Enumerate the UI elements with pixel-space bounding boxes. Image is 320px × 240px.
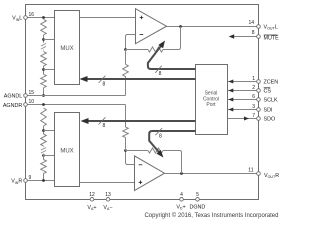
pin 1 ZCEN	[257, 80, 261, 84]
pin 14 VoutL	[257, 25, 261, 29]
svg-text:16: 16	[29, 12, 35, 18]
MUX U1 left channel	[55, 11, 80, 85]
op-amp A2 right channel	[135, 156, 165, 191]
ladder-L continuation squiggle	[41, 42, 46, 51]
variable resistor RF2 (feedback)	[148, 148, 163, 153]
svg-text:MUX: MUX	[60, 148, 73, 154]
arrowhead MUTE	[229, 34, 235, 38]
resistor ladder-L R1	[41, 19, 47, 35]
svg-text:4: 4	[180, 192, 183, 198]
svg-text:14: 14	[248, 20, 254, 26]
arrowhead MUX1 select	[80, 76, 88, 82]
resistor RG1 to AGNDL	[123, 64, 129, 76]
node A2 feedback junction	[124, 149, 127, 152]
wire AGNDR pin10	[26, 104, 126, 106]
resistor ladder-R R3	[41, 160, 47, 174]
svg-text:SDO: SDO	[264, 117, 276, 123]
node ladder-R tap3	[42, 154, 45, 157]
svg-text:3: 3	[252, 104, 255, 110]
node VinR tap	[42, 179, 45, 182]
svg-text:CS: CS	[264, 89, 272, 95]
wire ZCEN	[228, 81, 259, 83]
svg-text:12: 12	[89, 192, 95, 198]
pin 12 VA+	[90, 198, 94, 202]
arrowhead RF1 wiper	[158, 41, 165, 49]
node A1 output junction	[179, 25, 182, 28]
wire A2 output to VoutR pin11	[165, 173, 259, 175]
wire A2 inverting input	[126, 151, 135, 165]
pin 10 AGNDR	[24, 103, 28, 107]
svg-text:VINR: VINR	[11, 179, 22, 185]
pin 7 SDO	[257, 117, 261, 121]
svg-text:SDI: SDI	[264, 108, 273, 114]
node ladder-R tap2	[42, 129, 45, 132]
wire feedback-L right segment	[163, 27, 181, 50]
svg-text:2: 2	[252, 85, 255, 91]
svg-text:Port: Port	[206, 102, 216, 108]
svg-text:VOUTL: VOUTL	[264, 25, 278, 31]
IC boundary box	[26, 5, 259, 200]
svg-text:7: 7	[252, 113, 255, 119]
wire ladder-R to VinR	[43, 174, 45, 181]
svg-text:8: 8	[103, 81, 106, 87]
node A2 output junction	[180, 172, 183, 175]
wire ladder-R seg2	[43, 154, 45, 160]
svg-text:VOUTR: VOUTR	[264, 173, 279, 179]
node ladder-L bottom	[42, 94, 45, 97]
svg-text:MUX: MUX	[60, 46, 73, 52]
svg-text:DGND: DGND	[189, 204, 205, 210]
svg-text:15: 15	[29, 90, 35, 96]
pin 15 AGNDL	[24, 94, 28, 98]
bus gain-control to RF2 wiper	[149, 131, 195, 153]
arrowhead RF2 wiper	[156, 150, 163, 158]
pin 2 CS	[257, 89, 261, 93]
pin 9 VinR	[24, 179, 28, 183]
svg-text:VA+: VA+	[87, 205, 96, 211]
wire RG1 leads	[125, 50, 127, 96]
svg-text:13: 13	[105, 192, 111, 198]
svg-text:VD+: VD+	[176, 204, 185, 210]
node ladder-L tap2	[42, 38, 45, 41]
bus mux-select to MUX2	[89, 120, 196, 122]
wire CS	[228, 90, 259, 92]
wire RG2 leads	[125, 105, 127, 151]
svg-text:6: 6	[252, 94, 255, 100]
svg-text:AGNDL: AGNDL	[4, 93, 23, 99]
svg-text:10: 10	[29, 99, 35, 105]
op-amp A2 minus sign	[139, 164, 143, 166]
resistor ladder-R R2	[41, 134, 47, 146]
svg-text:1: 1	[252, 76, 255, 82]
svg-text:SCLK: SCLK	[264, 98, 278, 104]
wire ladder-L to AGNDL	[43, 88, 45, 96]
wire feedback-L left segment	[126, 49, 149, 51]
svg-text:VINL: VINL	[12, 16, 22, 22]
pin 8 MUTE	[257, 35, 261, 39]
svg-text:9: 9	[29, 175, 32, 181]
pin 3 SDI	[257, 108, 261, 112]
variable resistor RF1 (feedback)	[148, 47, 163, 52]
wire tap2 to MUX2	[44, 130, 55, 132]
op-amp A1 minus sign	[140, 34, 144, 36]
bus width slash RF1	[155, 66, 162, 73]
node VinL tap	[42, 16, 45, 19]
wire A1 output to VoutL pin14	[167, 26, 259, 28]
svg-text:11: 11	[248, 168, 253, 174]
arrowhead ZCEN in	[228, 80, 233, 84]
node ladder-R top	[42, 103, 45, 106]
arrowhead MUX2 select	[81, 118, 89, 124]
svg-text:MUTE: MUTE	[264, 36, 280, 42]
bus width slash RF2	[155, 128, 162, 135]
resistor ladder-L R3	[41, 74, 47, 87]
wire ladder-R seg1	[43, 126, 45, 134]
wire tap3 to MUX1	[44, 69, 55, 71]
wire ladder-L seg1	[43, 35, 45, 42]
arrowhead SCLK in	[228, 98, 233, 102]
serial control port block	[196, 65, 228, 135]
node A1 feedback junction	[124, 48, 127, 51]
svg-text:ZCEN: ZCEN	[264, 80, 279, 86]
svg-text:8: 8	[252, 30, 255, 36]
bus width slash MUX1	[99, 76, 106, 83]
ladder-R continuation squiggle	[41, 147, 46, 155]
wire VinR pin9 to MUX2	[26, 180, 55, 182]
wire MUTE pin8	[231, 36, 259, 38]
pin 6 SCLK	[257, 98, 261, 102]
wire VinL pin16 to MUX1	[26, 17, 55, 19]
resistor ladder-R R1	[41, 108, 47, 126]
op-amp A1 plus sign	[140, 16, 144, 20]
wire AGNDL pin15	[26, 95, 126, 97]
svg-text:8: 8	[159, 71, 162, 77]
pin 13 VA-	[106, 198, 110, 202]
svg-text:5: 5	[196, 192, 199, 198]
arrowhead CS in	[228, 89, 233, 93]
op-amp A1 left channel	[136, 9, 167, 44]
wire tap3 to MUX2	[44, 155, 55, 157]
wire SCLK	[228, 99, 259, 101]
svg-text:AGNDR: AGNDR	[3, 103, 23, 109]
wire feedback-R left segment	[126, 150, 149, 152]
arrowhead SDO out	[244, 117, 249, 121]
resistor ladder-L R2	[41, 52, 47, 67]
pin 5 DGND	[196, 198, 200, 202]
arrowhead SDI in	[228, 108, 233, 112]
pin 16 VinL	[24, 16, 28, 20]
wire ladder-L seg2	[43, 66, 45, 74]
bus width slash MUX2	[99, 117, 106, 124]
pin 4 VD+	[180, 198, 184, 202]
wire SDI	[228, 109, 259, 111]
svg-text:Copyright © 2016, Texas Instru: Copyright © 2016, Texas Instruments Inco…	[144, 212, 278, 219]
wire SDO	[228, 118, 259, 120]
bus gain-control to RF1 wiper	[148, 46, 196, 69]
svg-text:8: 8	[103, 123, 106, 129]
node ladder-L tap3	[42, 68, 45, 71]
svg-text:VA−: VA−	[103, 205, 112, 211]
MUX U2 right channel	[55, 113, 80, 187]
wire tap2 to MUX1	[44, 39, 55, 41]
svg-text:8: 8	[159, 134, 162, 140]
wire feedback-R right segment	[163, 151, 182, 174]
op-amp A2 plus sign	[139, 181, 143, 185]
pin 11 VoutR	[257, 172, 261, 176]
bus mux-select to MUX1	[88, 78, 196, 80]
resistor RG2 to AGNDR	[123, 127, 129, 138]
wire MUX1 out to opamp A1 +	[80, 17, 136, 19]
wire MUX2 out to opamp A2 +	[80, 182, 135, 184]
wire A1 inverting input	[126, 35, 136, 50]
